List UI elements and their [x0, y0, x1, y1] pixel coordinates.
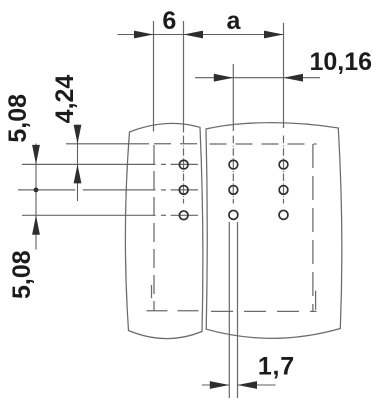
svg-text:6: 6	[162, 7, 176, 35]
svg-text:5,08: 5,08	[8, 250, 36, 299]
svg-text:4,24: 4,24	[51, 75, 79, 124]
svg-text:1,7: 1,7	[258, 353, 295, 381]
svg-text:5,08: 5,08	[4, 94, 32, 143]
svg-text:a: a	[226, 7, 241, 35]
svg-text:10,16: 10,16	[309, 48, 372, 76]
